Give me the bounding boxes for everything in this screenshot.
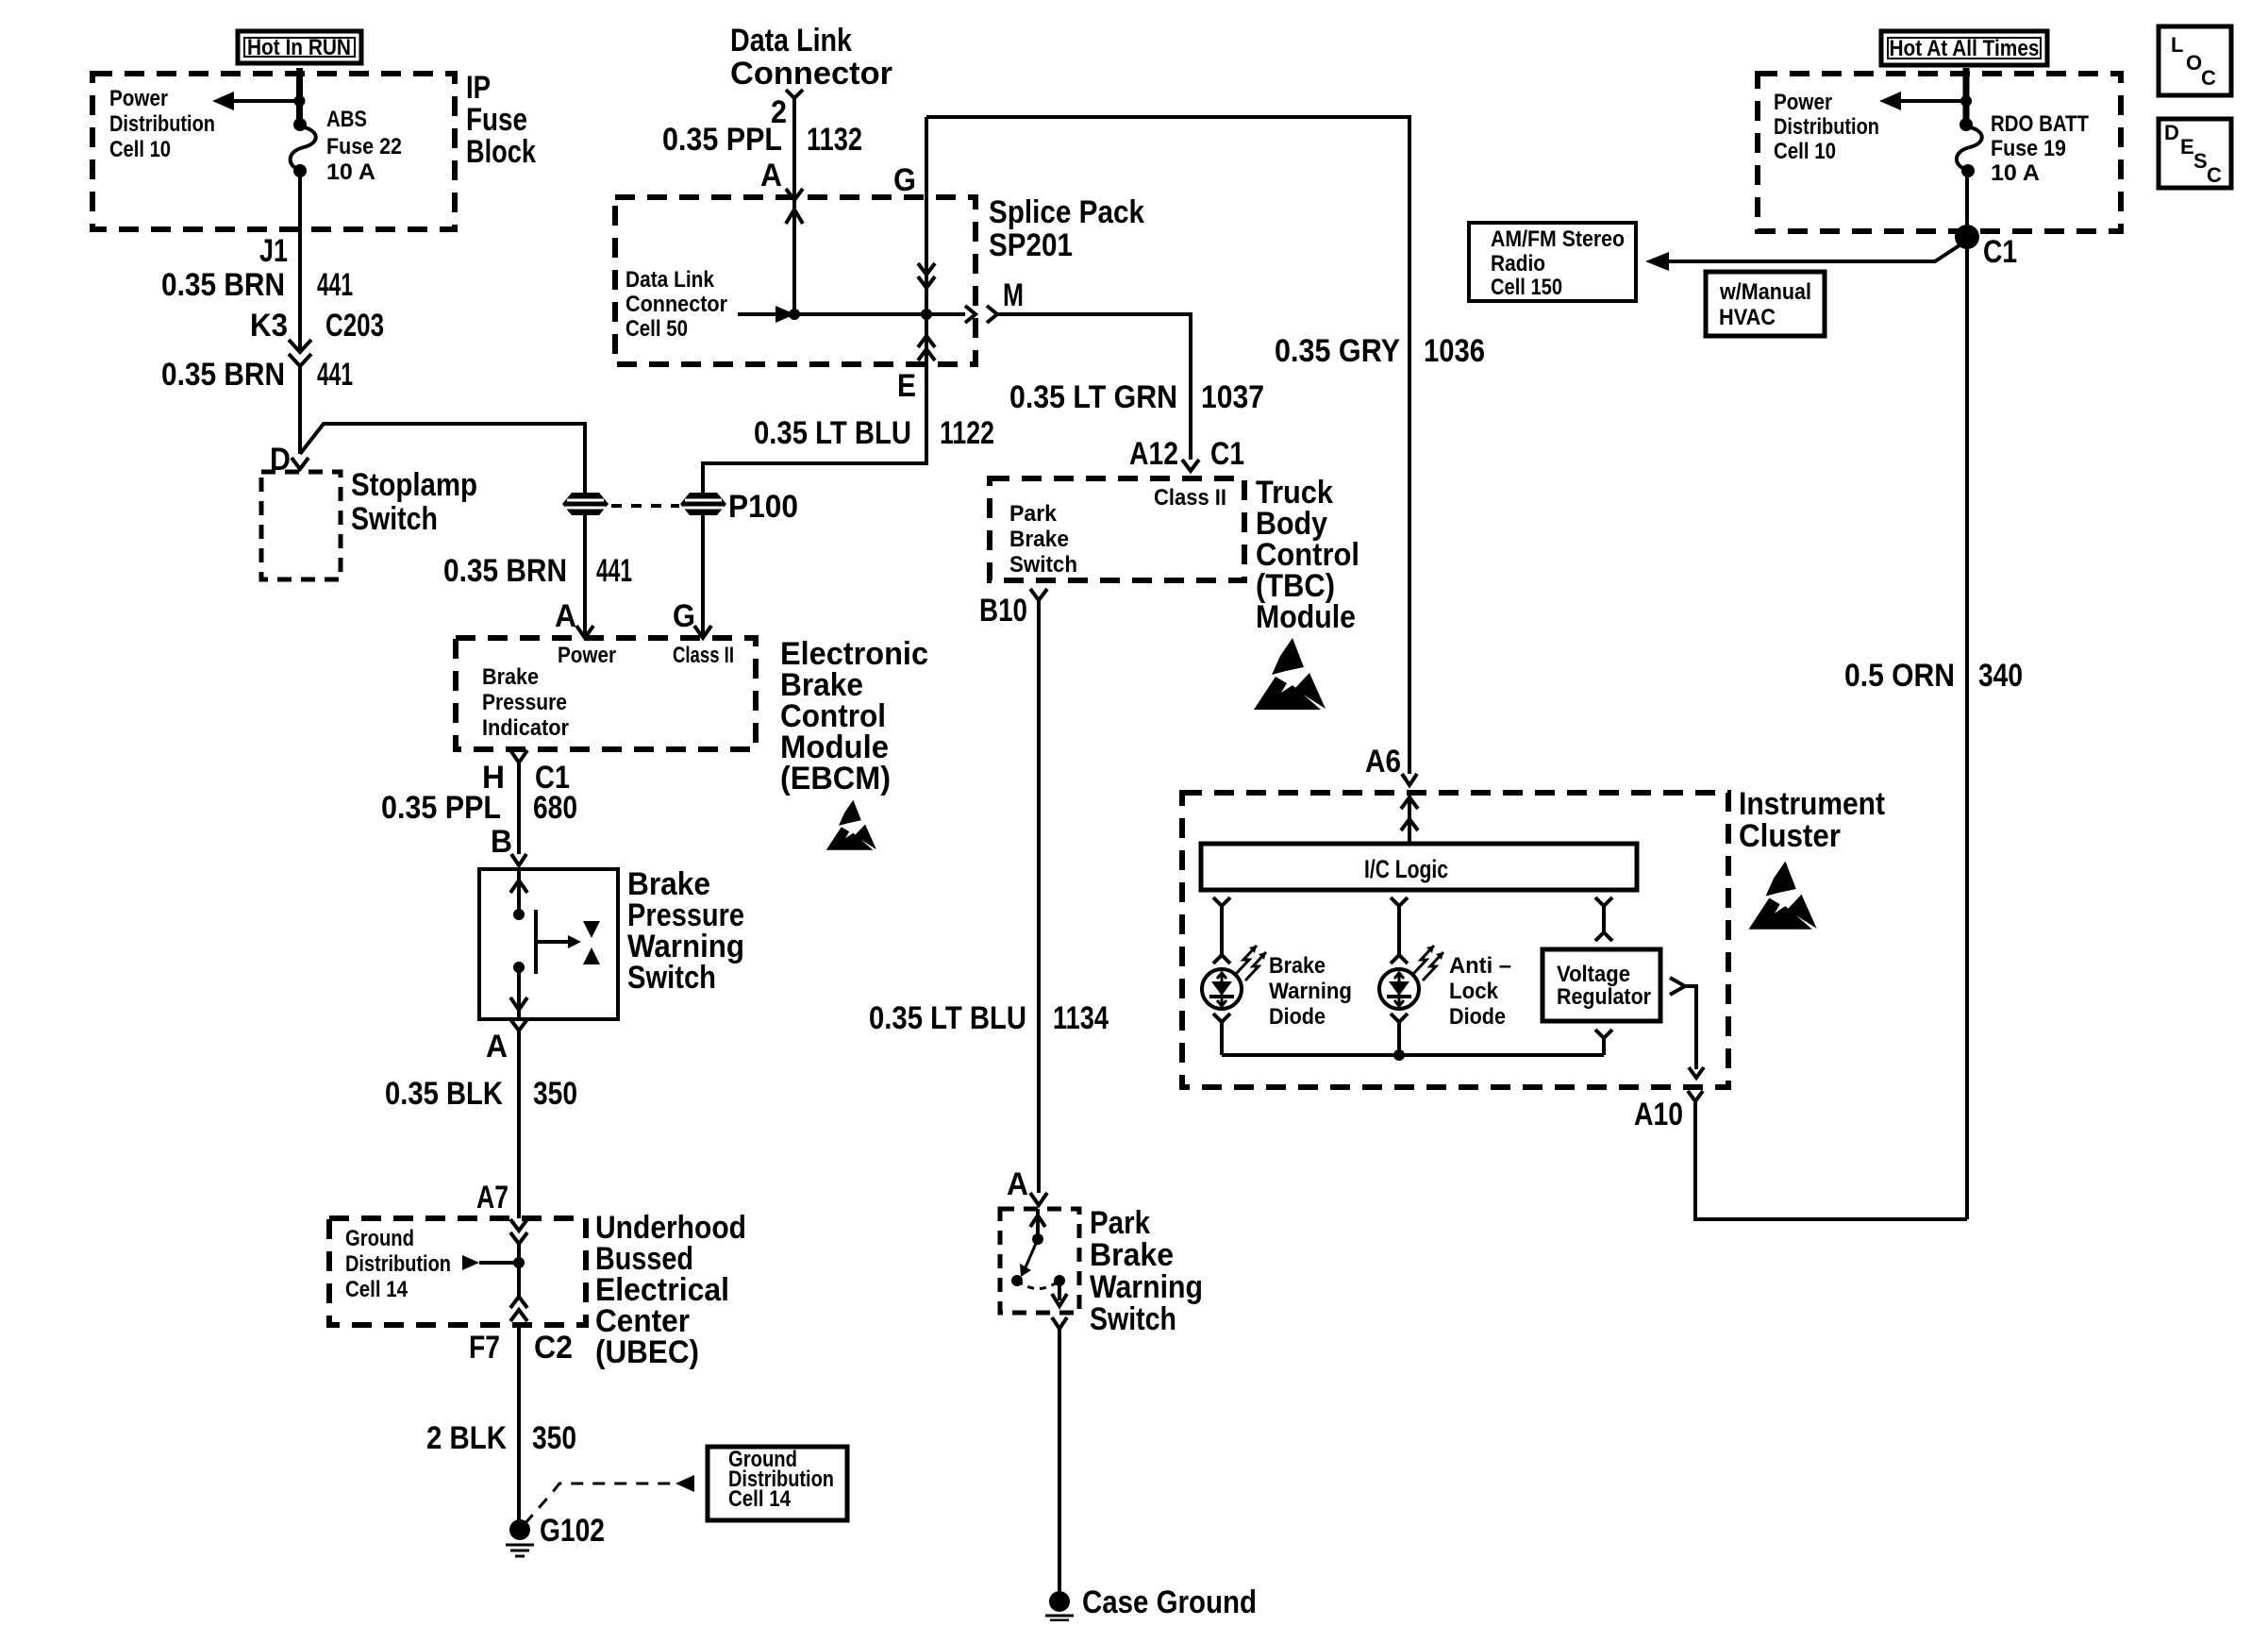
svg-text:10 A: 10 A	[1991, 160, 2040, 186]
svg-text:1036: 1036	[1424, 333, 1485, 369]
node I/C Logic box	[1201, 844, 1637, 890]
svg-text:Distribution: Distribution	[1774, 114, 1879, 140]
svg-text:Distribution: Distribution	[109, 111, 215, 137]
svg-text:C: C	[2201, 66, 2216, 90]
pin B10 of TBC	[979, 589, 1047, 629]
node Park Brake Warning Switch label	[1090, 1205, 1203, 1337]
wire M to TBC pin A12	[997, 314, 1191, 460]
svg-text:HVAC: HVAC	[1719, 305, 1776, 330]
svg-text:Hot At All Times: Hot At All Times	[1890, 36, 2040, 61]
svg-text:G102: G102	[540, 1513, 605, 1549]
svg-text:0.35 LT GRN: 0.35 LT GRN	[1009, 379, 1177, 415]
wire below brake warning diode	[1213, 1014, 1230, 1055]
wire G leg of splice pack	[918, 117, 935, 320]
wire from D to brake pressure indicator	[300, 424, 585, 494]
svg-text:Diode: Diode	[1449, 1004, 1506, 1030]
svg-text:E: E	[2180, 135, 2194, 159]
wire dashed pointer to ground note	[525, 1475, 694, 1524]
node IP Fuse Block label	[466, 70, 536, 170]
node Hot At All Times label box	[1881, 31, 2047, 65]
node Instrument Cluster label	[1739, 786, 1885, 854]
wire ORN 340 down right side	[1965, 171, 1969, 1219]
svg-text:Class II: Class II	[673, 643, 734, 668]
svg-text:441: 441	[317, 357, 353, 393]
svg-text:340: 340	[1978, 658, 2023, 694]
wire below anti-lock diode	[1391, 1014, 1408, 1061]
svg-text:A: A	[555, 598, 576, 634]
switch Brake Pressure Warning Switch box	[479, 869, 618, 1019]
svg-text:0.35 BRN: 0.35 BRN	[161, 357, 285, 393]
svg-text:C1: C1	[1983, 234, 2017, 270]
wire label 0.35 BRN 441 (1)	[161, 267, 353, 303]
svg-text:G: G	[673, 598, 695, 634]
svg-text:AM/FM Stereo: AM/FM Stereo	[1491, 226, 1625, 252]
svg-text:0.35 PPL: 0.35 PPL	[381, 790, 501, 826]
IP Fuse Block dashed box	[92, 74, 455, 229]
svg-text:Cell 10: Cell 10	[109, 137, 171, 162]
svg-text:SP201: SP201	[989, 227, 1073, 263]
wire PPL 680	[517, 763, 521, 854]
svg-text:w/Manual: w/Manual	[1719, 279, 1811, 305]
node AM/FM Stereo Radio Cell 150 box	[1469, 223, 1636, 301]
svg-text:I/C Logic: I/C Logic	[1364, 855, 1448, 883]
svg-text:Brake: Brake	[1090, 1237, 1174, 1273]
pin left output of I/C logic	[1213, 897, 1230, 964]
node Hot In RUN label box	[238, 31, 361, 63]
wire diode ground bus	[1222, 1053, 1604, 1057]
svg-text:Park: Park	[1009, 501, 1058, 527]
svg-text:Case Ground: Case Ground	[1082, 1584, 1257, 1620]
node Voltage Regulator box	[1543, 949, 1660, 1021]
wire label 2 BLK 350	[426, 1420, 576, 1456]
svg-text:A: A	[1007, 1166, 1028, 1202]
pin 2 of data link connector	[771, 90, 803, 130]
svg-text:Brake: Brake	[1269, 953, 1326, 979]
svg-text:Ground: Ground	[345, 1226, 414, 1251]
pin A of park brake warning switch	[1007, 1166, 1047, 1205]
wire label 0.35 LT BLU 1122	[754, 415, 994, 451]
svg-text:Cell 150: Cell 150	[1491, 275, 1562, 300]
wire LT BLU from splice E to EBCM pin G	[703, 364, 926, 494]
svg-text:Radio: Radio	[1491, 251, 1545, 277]
node DESC box	[2159, 119, 2231, 188]
node Data Link Connector header	[730, 23, 892, 92]
wire splice G to instrument cluster A6	[926, 117, 1409, 774]
wire arrow to power distribution right	[1879, 92, 1972, 110]
svg-text:Lock: Lock	[1449, 979, 1499, 1004]
node Truck Body Control (TBC) Module label	[1256, 475, 1359, 635]
pin M of splice pack	[965, 277, 1024, 323]
node UBEC dashed box	[329, 1218, 586, 1325]
pin G of EBCM	[673, 598, 711, 638]
svg-text:(UBEC): (UBEC)	[595, 1334, 699, 1370]
svg-text:Voltage: Voltage	[1557, 962, 1630, 987]
svg-text:C1: C1	[1210, 436, 1244, 472]
svg-text:A: A	[486, 1029, 508, 1064]
connector C203 pin K3	[250, 308, 384, 366]
wire BLK 350	[517, 1031, 521, 1218]
svg-text:0.5 ORN: 0.5 ORN	[1844, 658, 1955, 694]
node Underhood Bussed Electrical Center (UBEC) label	[595, 1210, 746, 1370]
node Power Distribution Cell 10 (right)	[1774, 90, 1879, 164]
svg-text:IP: IP	[466, 70, 491, 106]
node Brake Pressure Indicator label	[482, 664, 569, 741]
inline connector P100 right half	[680, 489, 798, 525]
svg-text:Switch: Switch	[1090, 1301, 1176, 1337]
svg-text:Block: Block	[466, 134, 536, 170]
svg-text:Hot In RUN: Hot In RUN	[247, 35, 351, 60]
svg-text:M: M	[1003, 277, 1024, 313]
svg-text:C: C	[2207, 163, 2222, 187]
pin below park brake warning switch	[1052, 1317, 1067, 1329]
node Truck Body Control dashed box	[990, 478, 1244, 580]
svg-text:Cell 14: Cell 14	[728, 1486, 792, 1512]
wire below voltage regulator	[1595, 1030, 1612, 1055]
wire to AM/FM radio	[1645, 243, 1962, 271]
svg-text:Regulator: Regulator	[1557, 984, 1651, 1010]
svg-text:Splice Pack: Splice Pack	[989, 194, 1144, 230]
svg-text:Cluster: Cluster	[1739, 818, 1841, 854]
ESD symbol TBC	[1254, 638, 1326, 710]
svg-text:0.35 BLK: 0.35 BLK	[385, 1076, 503, 1112]
svg-text:(EBCM): (EBCM)	[780, 761, 891, 796]
wire 441 BRN upper segment	[298, 171, 302, 349]
pin middle output of I/C logic	[1391, 897, 1408, 964]
svg-text:Distribution: Distribution	[345, 1251, 451, 1277]
ground G102	[506, 1513, 605, 1556]
svg-text:2 BLK: 2 BLK	[426, 1420, 507, 1456]
pin F7 C2 of UBEC	[469, 1330, 573, 1366]
wire label 0.35 LT GRN 1037	[1009, 379, 1264, 415]
svg-text:Module: Module	[1256, 599, 1356, 635]
svg-text:350: 350	[533, 1076, 577, 1112]
svg-text:441: 441	[596, 553, 632, 589]
ground Case Ground	[1045, 1584, 1257, 1620]
wire dashed link P100	[611, 504, 679, 508]
wire label 0.35 PPL 680	[381, 790, 577, 826]
pin right of voltage regulator to A10	[1670, 978, 1704, 1078]
svg-text:Power: Power	[1774, 90, 1832, 115]
svg-text:Brake: Brake	[482, 664, 539, 690]
svg-text:0.35 PPL: 0.35 PPL	[662, 122, 782, 158]
wire label 0.35 GRY 1036	[1275, 333, 1485, 369]
node Splice Pack SP201 label	[989, 194, 1144, 263]
svg-text:P100: P100	[728, 489, 798, 525]
wire A leg inside splice pack	[786, 201, 803, 314]
node LOC box	[2159, 26, 2231, 95]
wire BRN into EBCM pin A	[583, 514, 587, 638]
svg-text:G: G	[893, 162, 916, 198]
wire E leg of splice pack	[897, 314, 935, 404]
node Splice Pack SP201 dashed box	[615, 197, 976, 364]
svg-text:A6: A6	[1365, 744, 1401, 779]
Stoplamp Switch dashed box	[261, 467, 477, 579]
wire A6 leg inside cluster	[1401, 793, 1418, 844]
svg-text:Warning: Warning	[1269, 979, 1352, 1004]
svg-text:350: 350	[532, 1420, 576, 1456]
node Data Link Connector Cell 50	[625, 267, 727, 342]
pin right output of I/C logic	[1595, 897, 1612, 941]
wire arrow from cell 50 note	[738, 306, 800, 323]
node Instrument Cluster dashed box	[1182, 793, 1728, 1087]
svg-text:K3: K3	[250, 308, 288, 344]
svg-text:441: 441	[317, 267, 353, 303]
wire label 0.35 BRN 441 (3)	[443, 553, 632, 589]
node Electronic Brake Control Module (EBCM) label	[780, 636, 928, 796]
svg-text:10 A: 10 A	[326, 159, 375, 185]
diode Anti-Lock Diode	[1379, 946, 1443, 1009]
svg-text:Power: Power	[109, 86, 168, 111]
svg-text:C203: C203	[325, 308, 384, 344]
node Brake Pressure Warning Switch label	[627, 866, 744, 996]
svg-text:Cell 10: Cell 10	[1774, 139, 1836, 164]
svg-text:Switch: Switch	[627, 960, 716, 996]
pin A10 of instrument cluster	[1634, 1091, 1703, 1132]
svg-text:1134: 1134	[1053, 1000, 1109, 1036]
fuse ABS Fuse 22 10 A	[291, 107, 402, 185]
svg-text:Switch: Switch	[351, 501, 438, 537]
svg-text:J1: J1	[259, 233, 288, 269]
svg-text:Anti –: Anti –	[1449, 953, 1511, 979]
svg-text:Data Link: Data Link	[625, 267, 715, 293]
pin B of brake pressure warning switch	[491, 824, 526, 865]
wire arrow to power distribution left	[212, 92, 306, 110]
wire label 0.35 LT BLU 1134	[869, 1000, 1109, 1036]
svg-text:L: L	[2171, 33, 2183, 57]
node D	[270, 442, 309, 478]
svg-text:Diode: Diode	[1269, 1004, 1326, 1030]
svg-text:0.35 LT BLU: 0.35 LT BLU	[754, 415, 911, 451]
svg-text:1037: 1037	[1201, 379, 1264, 415]
wire 2 BLK 350	[517, 1325, 521, 1522]
svg-text:B: B	[491, 824, 512, 860]
svg-text:1122: 1122	[940, 415, 994, 451]
ESD symbol EBCM	[826, 800, 876, 850]
ESD symbol instrument cluster	[1748, 862, 1816, 930]
switch Park Brake Warning Switch dashed box	[1000, 1209, 1079, 1313]
svg-text:D: D	[2164, 121, 2179, 144]
svg-text:S: S	[2193, 149, 2208, 173]
node Power Distribution Cell 10 (left)	[109, 86, 215, 162]
svg-text:0.35 BRN: 0.35 BRN	[443, 553, 567, 589]
wire label 0.35 PPL 1132	[662, 122, 862, 158]
node Park Brake Switch label	[1009, 501, 1077, 578]
svg-text:Data Link: Data Link	[730, 23, 852, 59]
wire hot feed left	[296, 68, 303, 126]
wire hot feed right	[1963, 68, 1970, 126]
svg-text:0.35 BRN: 0.35 BRN	[161, 267, 285, 303]
svg-text:A: A	[760, 158, 782, 193]
svg-text:A12: A12	[1129, 436, 1178, 472]
svg-text:C2: C2	[534, 1330, 573, 1366]
svg-text:Class II: Class II	[1154, 485, 1226, 511]
node Ground Distribution Cell 14 note box	[708, 1447, 847, 1520]
wire arrow ground distribution to wire	[462, 1255, 525, 1270]
svg-text:Instrument: Instrument	[1739, 786, 1885, 822]
svg-text:Park: Park	[1090, 1205, 1150, 1241]
wire 441 BRN to node D	[298, 366, 302, 454]
svg-text:Connector: Connector	[730, 56, 892, 92]
svg-text:Cell 14: Cell 14	[345, 1277, 409, 1302]
pin A below switch	[486, 1019, 527, 1064]
wire LT BLU 1134	[1037, 600, 1041, 1193]
wire A10 to ORN junction	[1695, 1101, 1967, 1219]
wire label 0.35 BRN 441 (2)	[161, 357, 353, 393]
node C1 splice	[1955, 225, 2017, 270]
svg-text:Indicator: Indicator	[482, 715, 569, 741]
svg-text:A7: A7	[476, 1180, 509, 1215]
svg-text:A10: A10	[1634, 1097, 1683, 1132]
svg-text:Switch: Switch	[1009, 552, 1077, 578]
svg-text:Stoplamp: Stoplamp	[351, 467, 477, 503]
node w/Manual HVAC box	[1706, 272, 1825, 336]
wire PPL 1132	[792, 98, 796, 197]
svg-text:ABS: ABS	[326, 107, 367, 132]
node Brake Warning Diode label	[1269, 953, 1352, 1030]
svg-text:RDO BATT: RDO BATT	[1991, 111, 2089, 137]
svg-text:Fuse: Fuse	[466, 102, 527, 138]
wire splice bus to M	[794, 312, 965, 316]
svg-text:0.35 GRY: 0.35 GRY	[1275, 333, 1400, 369]
wire label 0.35 BLK 350	[385, 1076, 577, 1112]
svg-text:Power: Power	[558, 643, 616, 668]
svg-text:F7: F7	[469, 1330, 500, 1366]
svg-text:Pressure: Pressure	[482, 690, 567, 715]
svg-text:1132: 1132	[807, 122, 862, 158]
pin A of splice pack	[760, 158, 803, 200]
svg-text:Connector: Connector	[625, 292, 727, 317]
wire to case ground	[1058, 1329, 1061, 1593]
svg-text:E: E	[897, 368, 916, 404]
svg-text:0.35 LT BLU: 0.35 LT BLU	[869, 1000, 1026, 1036]
wire label 0.5 ORN 340	[1844, 658, 2023, 694]
node Ground Distribution Cell 14 (UBEC)	[345, 1226, 451, 1302]
fuse RDO BATT Fuse 19 10 A	[1957, 111, 2089, 186]
svg-text:Cell 50: Cell 50	[625, 316, 688, 342]
node power distribution dashed box right	[1758, 74, 2121, 231]
pin A of EBCM	[555, 598, 593, 638]
pin A6 of instrument cluster	[1365, 744, 1417, 785]
svg-text:Fuse 22: Fuse 22	[326, 134, 402, 159]
node Anti-Lock Diode label	[1449, 953, 1511, 1030]
diode Brake Warning Diode	[1202, 946, 1266, 1009]
pin A12 C1 of TBC	[1129, 436, 1244, 472]
svg-text:Fuse 19: Fuse 19	[1991, 136, 2066, 161]
svg-text:B10: B10	[979, 593, 1027, 629]
svg-text:Brake: Brake	[1009, 527, 1069, 552]
svg-text:680: 680	[533, 790, 577, 826]
svg-text:O: O	[2186, 51, 2202, 75]
pin H C1 of EBCM	[482, 750, 570, 796]
inline connector P100 left half	[562, 493, 609, 515]
svg-text:Warning: Warning	[1090, 1269, 1203, 1305]
op-amp EBCM dashed box (Electronic Brake Control Module)	[456, 638, 756, 749]
